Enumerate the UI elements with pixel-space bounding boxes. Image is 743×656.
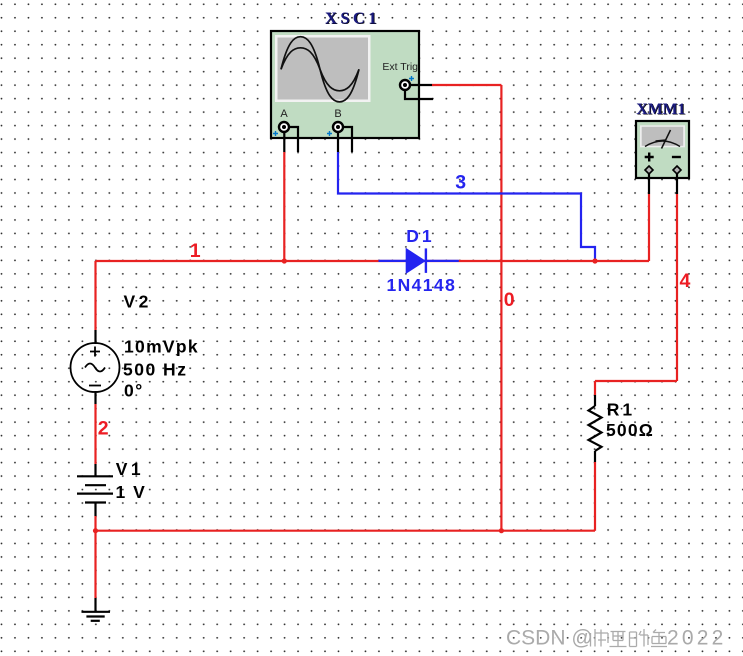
wire net1 scope channel A drop (283, 152, 285, 261)
wire net4 into R1 top (594, 381, 596, 395)
battery V1 pin stub top (94, 464, 96, 476)
instrument label XMM1 (636, 101, 686, 119)
multimeter gauge arc (645, 141, 680, 147)
diode D1 cathode bar (425, 248, 427, 273)
svg-text:500Ω: 500Ω (606, 420, 654, 440)
svg-text:R1: R1 (607, 400, 635, 420)
svg-text:B: B (334, 108, 341, 120)
svg-text:0°: 0° (124, 381, 144, 401)
watermark CJK char 3 (630, 629, 649, 647)
AC source V2 plus (90, 347, 100, 357)
svg-text:2022: 2022 (667, 627, 727, 650)
svg-text:CSDN @: CSDN @ (506, 627, 593, 650)
junction dot at net0 bottom (499, 528, 504, 533)
AC source V2 sine (85, 364, 105, 372)
oscilloscope screen (278, 38, 369, 100)
plus mark ext trig (409, 76, 414, 81)
junction dot at battery bottom (93, 528, 98, 533)
pin stub ext trig (409, 84, 432, 86)
svg-text:V2: V2 (124, 292, 152, 312)
pin stub XMM1 minus (676, 174, 678, 194)
junction dot at scope A / net1 (282, 258, 287, 263)
svg-text:XSC1: XSC1 (325, 9, 380, 28)
connector ring ext trig (400, 80, 410, 90)
svg-text:3: 3 (455, 172, 466, 194)
wire net1 up into XMM1 plus (648, 194, 650, 261)
AC source V2 circle (71, 343, 120, 392)
svg-text:500 Hz: 500 Hz (123, 360, 187, 380)
instrument label XSC1 (325, 9, 381, 29)
ground bar 2 (86, 615, 104, 617)
plus mark channel B (327, 131, 332, 136)
wire net2 V2 bottom to V1 top (94, 404, 96, 464)
multimeter plus sign (645, 153, 654, 162)
pin stub ext trig minus pigtail (405, 90, 433, 99)
svg-text:XMM1: XMM1 (636, 101, 685, 118)
diode D1 triangle (406, 248, 426, 274)
svg-text:V1: V1 (116, 459, 144, 479)
plus mark channel A (273, 131, 278, 136)
diode D1 leads (379, 260, 459, 262)
svg-text:0: 0 (504, 289, 515, 311)
resistor R1 lead bottom (594, 451, 596, 462)
ground bar 1 (82, 611, 111, 613)
wire net1 horizontal main (96, 260, 650, 262)
AC source V2 pin stub bottom (94, 391, 96, 404)
watermark CSDN (506, 627, 594, 651)
wire net4 XMM1 minus drop (676, 194, 678, 381)
wire net0 long vertical (500, 85, 502, 531)
wire net0 ext trig horizontal (432, 84, 501, 86)
battery V1 pin stub bottom (94, 503, 96, 517)
pin stub channel A (283, 131, 285, 152)
wire net1 vertical from V2 top (94, 261, 96, 330)
multimeter minus sign (672, 156, 681, 158)
svg-text:2: 2 (98, 418, 109, 440)
watermark CJK char 4 (651, 630, 667, 647)
connector ring channel A (279, 122, 289, 132)
svg-text:D1: D1 (406, 226, 434, 246)
wire net0 bottom horizontal (96, 530, 596, 532)
scope trace sine 2 (281, 48, 359, 91)
pin stub channel A minus pigtail (289, 127, 298, 152)
ground pin stub (94, 598, 96, 612)
multimeter XMM1 body (636, 121, 689, 178)
battery V1 plate short 2 (85, 501, 106, 503)
multimeter needle (662, 130, 671, 149)
XMM1 terminal minus (673, 166, 681, 174)
svg-text:Ext Trig: Ext Trig (382, 61, 418, 73)
AC source V2 pin stub top (94, 330, 96, 344)
watermark CJK char 1 (591, 629, 609, 647)
connector ring channel B (333, 122, 343, 132)
wire net0 ground drop (94, 531, 96, 598)
ground bar 3 (91, 620, 100, 622)
resistor R1 zigzag (589, 406, 602, 451)
battery V1 plate short 1 (85, 484, 106, 486)
oscilloscope XSC1 body (271, 31, 419, 138)
pin stub channel B (337, 131, 339, 152)
junction dot at net3 / net1 (592, 258, 597, 263)
svg-text:1N4148: 1N4148 (387, 275, 457, 295)
svg-text:A: A (280, 108, 288, 120)
svg-text:4: 4 (680, 270, 691, 292)
watermark CJK char 2 (610, 632, 627, 647)
svg-text:1: 1 (190, 240, 201, 262)
multimeter screen (642, 127, 684, 146)
wire net4 horizontal to R1 (595, 380, 677, 382)
wire net3 blue scope B path (338, 152, 595, 261)
wire net0 R1 bottom drop (594, 462, 596, 531)
resistor R1 lead top (594, 395, 596, 406)
oscilloscope screen frame (275, 35, 371, 102)
pin stub XMM1 plus (648, 174, 650, 194)
svg-text:1 V: 1 V (116, 482, 147, 502)
wire net0 V1 bottom to junction (94, 516, 96, 531)
multimeter needle dash (656, 140, 667, 141)
battery V1 plate long 2 (77, 493, 113, 495)
scope trace sine 1 (281, 37, 359, 102)
XMM1 terminal plus (645, 166, 653, 174)
pin stub channel B minus pigtail (343, 127, 352, 152)
watermark 2022 (667, 627, 728, 651)
AC source V2 minus (89, 385, 101, 387)
svg-text:10mVpk: 10mVpk (124, 337, 199, 357)
multimeter screen frame (640, 125, 685, 147)
battery V1 plate long 1 (77, 475, 113, 477)
